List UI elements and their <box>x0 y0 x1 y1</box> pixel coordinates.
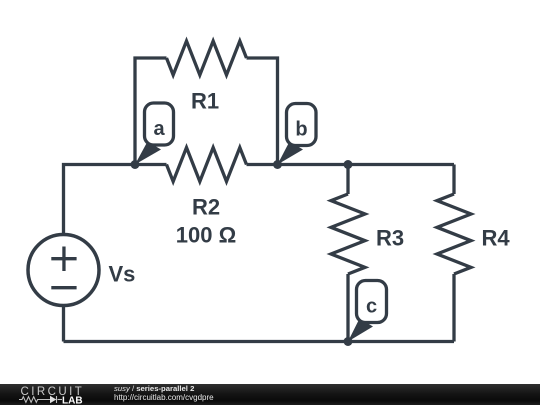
attribution line 1 <box>114 385 194 394</box>
attribution line 2 <box>114 393 214 402</box>
logo diode triangle <box>50 396 56 403</box>
wire left rail bottom <box>62 306 65 342</box>
callout tail c <box>348 319 373 342</box>
wire R1 right leg <box>247 58 278 165</box>
wire R4 top <box>452 165 455 195</box>
wire R4 bottom <box>452 274 455 342</box>
svg-text:R1: R1 <box>191 89 219 114</box>
resistor R1 <box>167 41 247 75</box>
svg-text:LAB: LAB <box>62 396 83 405</box>
wire R3 top <box>346 165 349 195</box>
CircuitLab logo <box>0 384 100 405</box>
callout tail b <box>278 142 304 165</box>
svg-text:R4: R4 <box>481 226 510 251</box>
node a junction dot <box>131 160 140 169</box>
wire top right <box>247 163 455 166</box>
wire R1 left leg <box>135 58 167 165</box>
wire bottom rail <box>64 340 455 343</box>
Vs plus sign <box>51 247 76 272</box>
callout box a <box>145 103 174 145</box>
wire left rail top <box>64 165 167 235</box>
callout box b <box>287 104 317 146</box>
node b junction dot <box>273 160 282 169</box>
svg-text:b: b <box>295 119 307 141</box>
svg-text:c: c <box>366 296 377 318</box>
node R3-top junction dot <box>344 160 353 169</box>
wire R3 bottom <box>346 274 349 342</box>
svg-text:R2: R2 <box>192 195 220 220</box>
callout tail a <box>135 142 161 165</box>
Vs minus sign <box>51 286 76 289</box>
svg-text:Vs: Vs <box>109 262 136 287</box>
svg-text:R3: R3 <box>376 226 404 251</box>
node c junction dot <box>344 337 353 346</box>
svg-text:a: a <box>153 118 165 140</box>
resistor R2 <box>167 148 247 182</box>
footer bar <box>0 384 540 405</box>
resistor R4 <box>437 194 471 274</box>
callout box c <box>357 281 387 323</box>
resistor R3 <box>331 194 365 274</box>
svg-text:100 Ω: 100 Ω <box>176 223 236 248</box>
logo resistor-diode glyph <box>19 396 62 403</box>
voltage source Vs circle <box>28 235 99 306</box>
